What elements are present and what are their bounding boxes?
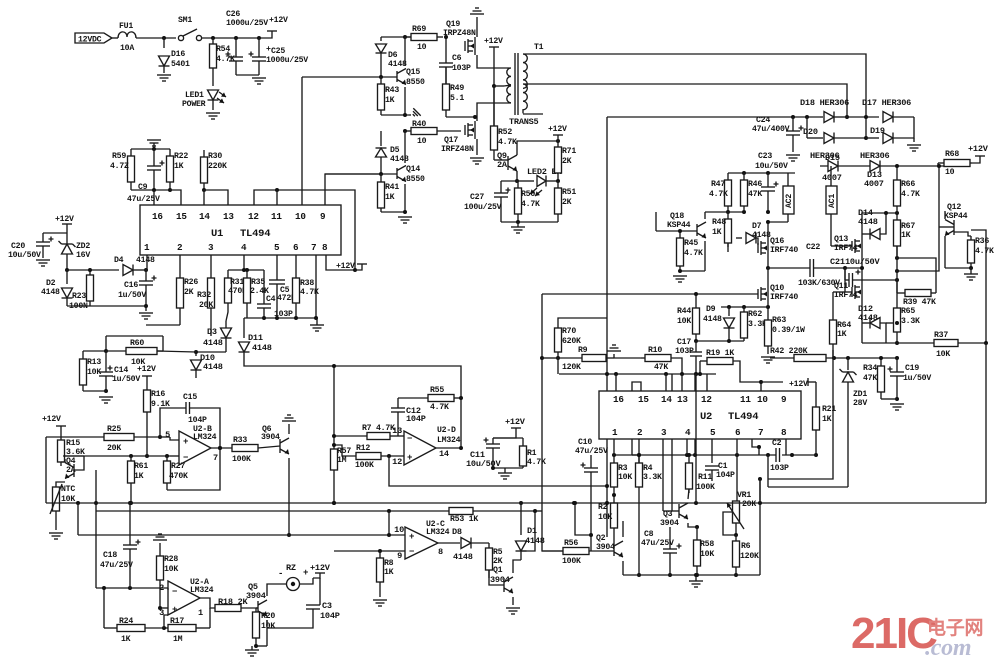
resistor R68: [938, 162, 944, 164]
svg-text:0.39/1W: 0.39/1W: [772, 325, 805, 335]
svg-text:R20: R20: [261, 612, 275, 621]
wire: [939, 226, 954, 228]
wire pin7: [315, 255, 317, 318]
svg-text:4148: 4148: [203, 338, 223, 348]
svg-text:10K: 10K: [618, 473, 632, 482]
svg-text:D15: D15: [825, 153, 840, 163]
svg-text:10K: 10K: [677, 317, 691, 326]
resistor R53: [449, 508, 473, 515]
svg-text:LED1: LED1: [185, 91, 204, 100]
svg-text:10u/50V: 10u/50V: [845, 257, 880, 267]
IC U1 TL494: [140, 205, 341, 255]
svg-text:10: 10: [394, 525, 404, 535]
wire: [146, 412, 148, 456]
wire: [157, 351, 196, 352]
wire: [696, 340, 744, 342]
resistor R50: [517, 181, 519, 188]
svg-text:1: 1: [612, 427, 618, 438]
svg-text:104P: 104P: [716, 471, 735, 480]
svg-text:4148: 4148: [453, 552, 473, 562]
wire through x695: [694, 374, 696, 455]
svg-text:C17: C17: [677, 338, 691, 347]
svg-text:7: 7: [758, 427, 763, 438]
svg-text:R9: R9: [578, 346, 588, 355]
node 12VDC input tag: [75, 33, 112, 43]
svg-text:+12V: +12V: [55, 215, 74, 224]
wire: [944, 211, 946, 219]
resistor R10: [645, 355, 671, 362]
wire: [862, 357, 897, 359]
svg-text:D2: D2: [46, 279, 56, 288]
svg-text:9: 9: [781, 394, 787, 405]
wire: [95, 470, 97, 588]
svg-text:R18 2K: R18 2K: [218, 597, 249, 607]
svg-text:SM1: SM1: [178, 16, 192, 25]
diode D3: [225, 321, 227, 328]
svg-text:10: 10: [945, 168, 955, 177]
resistor R42: [770, 357, 794, 359]
wire pin8: [785, 439, 787, 455]
svg-text:47K: 47K: [863, 374, 877, 383]
wire: [131, 189, 170, 191]
svg-text:U2-D: U2-D: [437, 426, 456, 435]
resistor R20: [255, 608, 257, 612]
svg-text:R59: R59: [112, 152, 126, 161]
wire: [160, 607, 168, 609]
svg-text:R7 4.7K: R7 4.7K: [362, 424, 395, 433]
wire: [276, 190, 278, 205]
svg-text:1K: 1K: [121, 635, 131, 644]
power +12V: [268, 31, 272, 38]
mosfet Q11: [851, 287, 853, 297]
svg-text:R5: R5: [493, 548, 503, 557]
svg-text:12VDC: 12VDC: [78, 36, 102, 45]
svg-text:Q12: Q12: [947, 203, 961, 212]
svg-text:120K: 120K: [562, 363, 581, 372]
wire row above U2: [559, 373, 716, 375]
capacitor C14: [105, 351, 107, 372]
svg-text:100K: 100K: [696, 483, 715, 492]
svg-text:1u/50V: 1u/50V: [112, 374, 140, 384]
svg-text:5401: 5401: [171, 60, 190, 69]
svg-text:100K: 100K: [562, 557, 581, 566]
resistor R55: [398, 397, 428, 399]
wire: [607, 116, 820, 118]
svg-text:C4: C4: [266, 295, 276, 304]
svg-text:R16: R16: [151, 390, 165, 399]
ground: [511, 226, 525, 228]
wire: [516, 171, 518, 181]
diode D12: [861, 301, 863, 343]
svg-text:C23: C23: [758, 152, 772, 161]
svg-text:3.3K: 3.3K: [901, 317, 920, 326]
node AC1: [830, 166, 832, 186]
diode D1: [520, 503, 522, 535]
resistor R64: [832, 292, 834, 320]
svg-text:R37: R37: [934, 331, 948, 340]
wire: [106, 335, 163, 337]
svg-text:R17: R17: [170, 617, 184, 626]
svg-text:C8: C8: [644, 530, 654, 539]
svg-text:R12: R12: [356, 444, 370, 453]
resistor R57: [333, 366, 335, 449]
op-amp U2-A: [167, 588, 169, 590]
wire loop R64 node: [767, 455, 769, 487]
svg-text:+: +: [409, 532, 414, 542]
wire loop ZD1: [768, 486, 848, 488]
zener ZD1: [847, 358, 849, 370]
capacitor C23: [767, 173, 769, 187]
svg-text:C16: C16: [124, 281, 138, 290]
svg-text:13: 13: [677, 394, 688, 405]
svg-text:20K: 20K: [199, 301, 213, 310]
svg-text:16: 16: [152, 211, 163, 222]
svg-text:47u/25V: 47u/25V: [127, 194, 160, 204]
svg-text:4.7K: 4.7K: [498, 138, 517, 147]
svg-text:R36: R36: [975, 237, 989, 246]
svg-text:5: 5: [710, 427, 716, 438]
diode D9: [728, 307, 730, 316]
svg-text:2K: 2K: [562, 157, 572, 166]
svg-text:C14: C14: [114, 366, 128, 375]
wire T1 bottom lead: [523, 113, 543, 115]
resistor R23: [89, 270, 91, 275]
op-amp U2-D: [404, 431, 436, 465]
ground: [786, 154, 800, 156]
wire pin5: [711, 439, 713, 463]
wire: [96, 587, 168, 589]
node AC2: [787, 173, 789, 186]
resistor R44: [695, 294, 697, 308]
svg-text:10K: 10K: [936, 350, 950, 359]
wire: [820, 165, 944, 167]
svg-text:R52: R52: [498, 128, 512, 137]
svg-text:20K: 20K: [107, 444, 121, 453]
svg-text:TL494: TL494: [728, 411, 758, 423]
svg-text:+: +: [172, 605, 177, 615]
LED LED2: [518, 180, 534, 182]
svg-text:10K: 10K: [700, 550, 714, 559]
svg-text:47u/25V: 47u/25V: [100, 560, 133, 570]
capacitor C12: [397, 412, 399, 436]
resistor R33: [232, 445, 258, 452]
wire: [203, 190, 205, 205]
ground: [310, 324, 324, 326]
svg-text:C18: C18: [103, 551, 117, 560]
wire: [759, 479, 761, 575]
svg-text:C1: C1: [718, 462, 728, 471]
wire output: [200, 598, 215, 608]
wire output: [211, 447, 232, 449]
svg-text:8550: 8550: [406, 78, 425, 87]
svg-text:3904: 3904: [660, 519, 679, 528]
svg-text:−: −: [172, 587, 177, 597]
svg-text:R55: R55: [430, 386, 444, 395]
wire: [897, 166, 939, 271]
power +12V: [315, 572, 325, 574]
wire pin16: [615, 374, 617, 391]
wire: [103, 588, 105, 628]
resistor R16: [146, 388, 148, 390]
ground: [99, 396, 113, 398]
svg-text:U2: U2: [700, 411, 712, 423]
svg-text:+12V: +12V: [484, 37, 503, 46]
ground: [36, 259, 50, 261]
power +12V: [489, 46, 499, 48]
svg-text:12: 12: [392, 457, 402, 467]
resistor R51: [557, 181, 559, 188]
ground: [470, 13, 484, 15]
resistor R38: [295, 277, 297, 279]
svg-text:R49: R49: [450, 84, 464, 93]
svg-text:4.7K: 4.7K: [430, 403, 449, 412]
capacitor C17: [695, 341, 697, 352]
svg-text:220K: 220K: [208, 162, 227, 171]
svg-text:R11: R11: [698, 473, 712, 482]
wire: [389, 456, 607, 486]
svg-text:4148: 4148: [388, 60, 407, 69]
svg-text:Q14: Q14: [406, 165, 420, 174]
capacitor C8: [669, 527, 671, 549]
svg-text:Q13: Q13: [834, 235, 848, 244]
svg-text:10A: 10A: [120, 44, 134, 53]
resistor R34: [880, 358, 882, 364]
svg-text:D9: D9: [706, 305, 716, 314]
resistor R2: [613, 495, 615, 503]
resistor R30: [203, 150, 205, 157]
svg-text:U1: U1: [211, 228, 223, 240]
wire: [728, 172, 795, 174]
svg-text:10K: 10K: [261, 622, 275, 631]
resistor R71: [557, 141, 559, 147]
wire: [477, 55, 504, 68]
svg-text:D11: D11: [248, 333, 263, 343]
svg-text:104P: 104P: [188, 416, 207, 425]
svg-text:TL494: TL494: [240, 228, 270, 240]
wire: [699, 361, 701, 374]
mosfet Q10: [757, 289, 759, 299]
svg-text:16: 16: [613, 394, 624, 405]
svg-text:R31: R31: [230, 278, 244, 287]
svg-text:+12V: +12V: [310, 563, 331, 573]
svg-text:+: +: [183, 437, 188, 447]
wire pin5: [276, 255, 278, 280]
power +12V: [972, 156, 980, 163]
wire: [680, 270, 705, 272]
svg-text:4.7K: 4.7K: [521, 200, 540, 209]
resistor R26: [179, 255, 181, 278]
ground: [506, 607, 520, 609]
svg-text:+12V: +12V: [789, 380, 808, 389]
diode D10: [195, 352, 197, 356]
svg-text:2: 2: [637, 427, 643, 438]
wire Q10 drain: [767, 268, 769, 285]
wire: [209, 608, 211, 628]
svg-text:D3: D3: [207, 327, 217, 337]
resistor R15: [60, 437, 62, 440]
svg-text:3904: 3904: [261, 433, 280, 442]
svg-text:C3: C3: [322, 601, 332, 611]
svg-text:RZ: RZ: [286, 563, 296, 573]
svg-text:C24: C24: [756, 116, 770, 125]
wire bus B: [78, 534, 405, 536]
svg-text:10K: 10K: [598, 513, 612, 522]
svg-text:4148: 4148: [136, 256, 155, 265]
diode D13: [870, 161, 880, 172]
wire: [146, 324, 180, 326]
resistor R60: [83, 350, 106, 352]
svg-text:C19: C19: [905, 364, 919, 373]
svg-text:470K: 470K: [169, 472, 188, 481]
svg-text:R42 220K: R42 220K: [770, 347, 808, 356]
svg-text:1K: 1K: [174, 162, 184, 171]
resistor R7: [334, 435, 367, 437]
svg-text:−: −: [407, 434, 412, 444]
resistor R69: [405, 36, 411, 38]
wire: [160, 436, 170, 438]
diode D7: [727, 243, 729, 252]
svg-text:C26: C26: [226, 10, 240, 19]
svg-text:4148: 4148: [390, 155, 409, 164]
wire: [288, 458, 290, 535]
svg-text:LM324: LM324: [193, 433, 217, 442]
svg-text:C10: C10: [578, 438, 592, 447]
diode D5: [380, 131, 382, 146]
svg-text:14: 14: [661, 394, 672, 405]
svg-text:1K: 1K: [901, 231, 911, 240]
svg-text:7: 7: [213, 453, 218, 463]
power +12V: [355, 264, 362, 270]
ground: [245, 649, 259, 651]
svg-text:3: 3: [208, 242, 214, 253]
svg-text:3: 3: [661, 427, 667, 438]
svg-text:5.1: 5.1: [450, 94, 464, 103]
resistor R36: [954, 232, 971, 236]
svg-text:D8: D8: [452, 527, 462, 537]
svg-text:D18 HER306: D18 HER306: [800, 98, 849, 108]
svg-text:4148: 4148: [858, 313, 878, 323]
LED LED1: [212, 74, 214, 86]
wire pin1: [613, 439, 615, 455]
wire: [244, 317, 316, 319]
svg-text:C22: C22: [806, 243, 820, 252]
diode D17: [847, 116, 879, 118]
resistor R58: [696, 527, 698, 540]
wire through x672: [671, 374, 673, 391]
svg-text:Q15: Q15: [406, 68, 420, 77]
svg-text:+: +: [407, 453, 412, 463]
wire: [501, 221, 558, 223]
svg-text:T1: T1: [534, 43, 544, 52]
svg-text:20K: 20K: [742, 500, 756, 509]
capacitor C4: [263, 270, 265, 304]
svg-text:8: 8: [322, 242, 328, 253]
svg-text:R19 1K: R19 1K: [706, 349, 734, 358]
svg-text:4148: 4148: [203, 362, 223, 372]
svg-text:2K: 2K: [562, 198, 572, 207]
svg-text:R15: R15: [66, 439, 80, 448]
svg-text:+12V: +12V: [505, 417, 526, 427]
diode D19: [866, 137, 879, 139]
resistor R67: [896, 213, 898, 220]
svg-text:12: 12: [248, 211, 259, 222]
svg-text:+12V: +12V: [548, 125, 567, 134]
wire R32 bottom: [210, 330, 212, 336]
ground: [206, 112, 220, 114]
wire pin4: [243, 255, 245, 270]
resistor R4: [638, 455, 640, 463]
svg-text:120K: 120K: [740, 552, 759, 561]
svg-text:R47: R47: [711, 180, 725, 189]
svg-text:C21: C21: [830, 257, 845, 267]
svg-text:D17 HER306: D17 HER306: [862, 98, 911, 108]
svg-text:R70: R70: [562, 327, 576, 336]
wire: [65, 268, 69, 272]
wire: [202, 188, 206, 192]
resistor R46: [743, 173, 745, 180]
svg-text:R63: R63: [772, 316, 786, 325]
svg-text:HER306: HER306: [860, 151, 890, 161]
diode D6: [380, 37, 382, 41]
svg-text:R41: R41: [385, 183, 399, 192]
wire: [83, 390, 106, 392]
svg-text:R57: R57: [337, 447, 351, 456]
wire: [164, 615, 168, 628]
wire: [381, 36, 411, 38]
svg-text:4148: 4148: [41, 288, 60, 297]
svg-text:2: 2: [159, 583, 164, 593]
power +12V: [62, 223, 72, 225]
svg-text:C25: C25: [271, 47, 285, 56]
ground: [607, 350, 621, 352]
svg-text:9: 9: [397, 551, 402, 561]
svg-text:LM324: LM324: [190, 586, 214, 595]
wire pin2: [638, 439, 640, 463]
svg-text:LM324: LM324: [437, 436, 461, 445]
diode D2: [66, 270, 68, 284]
diode D14: [862, 233, 870, 235]
wire R70 elbow: [558, 318, 607, 326]
svg-text:NTC: NTC: [61, 485, 75, 494]
ground: [907, 144, 921, 146]
svg-text:-: -: [278, 569, 283, 579]
wire pin3 through: [662, 439, 664, 511]
wire pin13: [681, 374, 683, 391]
wire bottom row: [623, 574, 760, 576]
thermistor NTC: [55, 485, 57, 487]
wire: [517, 141, 558, 155]
diode D18: [824, 112, 834, 123]
svg-text:11: 11: [271, 211, 282, 222]
fuse FU1: [118, 32, 136, 38]
wire Q13 source: [845, 255, 862, 268]
diode D15: [828, 161, 838, 172]
ground: [498, 472, 512, 474]
wire Q10 gate row: [542, 293, 758, 295]
svg-text:+: +: [303, 568, 308, 578]
capacitor C21: [844, 268, 846, 280]
svg-text:+12V: +12V: [336, 262, 355, 271]
wire: [557, 358, 559, 374]
svg-text:Q17: Q17: [444, 136, 458, 145]
svg-text:R39 47K: R39 47K: [903, 298, 936, 307]
svg-text:620K: 620K: [562, 337, 581, 346]
svg-text:2A: 2A: [497, 160, 508, 170]
svg-text:103P: 103P: [452, 64, 471, 73]
svg-text:4: 4: [241, 242, 247, 253]
wire: [767, 303, 769, 316]
IC U2 TL494: [599, 391, 801, 439]
